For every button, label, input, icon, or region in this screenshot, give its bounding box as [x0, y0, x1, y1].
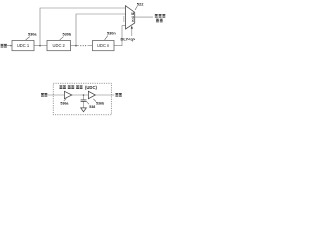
label 538 with tick	[87, 102, 90, 105]
svg-text:536a: 536a	[60, 102, 69, 106]
output label (Korean: 지연된 / 출력) right of mux	[155, 14, 165, 22]
inverter U536a	[64, 91, 71, 98]
label 522 with tick	[135, 6, 137, 10]
svg-text:UDC 2: UDC 2	[53, 43, 66, 48]
label 530b with tick	[60, 37, 64, 40]
wire UDC1 to UDC2	[34, 45, 47, 47]
mux vertical text MUX	[131, 12, 134, 23]
node A junction after UDC1	[39, 45, 41, 47]
wire inverter1 to inverter2	[71, 94, 88, 96]
wire UDC2 to ellipsis	[71, 45, 80, 47]
svg-text:538: 538	[89, 105, 95, 109]
wire select DLY into mux	[131, 27, 133, 36]
label 530n with tick	[105, 36, 108, 40]
label 530a with tick	[26, 37, 30, 40]
wire inverter2 to cell output	[95, 94, 114, 96]
node B junction after UDC2	[75, 45, 77, 47]
box UDC n	[93, 41, 115, 51]
wire UDCn output to mux input n	[114, 26, 126, 46]
svg-text:UDC n: UDC n	[97, 43, 110, 48]
title (Korean: 단위 지연 소자) + (UDC)	[60, 85, 83, 89]
wire ellipsis to UDCn	[88, 45, 93, 47]
ellipsis dots on chain between UDC2 and UDCn	[80, 45, 86, 46]
wire tap1 from node after UDC1 up to mux input 1	[40, 8, 126, 46]
svg-text:530n: 530n	[107, 32, 116, 36]
svg-text:(UDC): (UDC)	[85, 85, 97, 90]
cell input label (Korean: 입력)	[41, 93, 47, 97]
inverter U536b	[88, 91, 95, 98]
box UDC 1	[12, 41, 34, 51]
wire input to UDC 1	[7, 45, 12, 47]
dashed box unit delay cell detail	[53, 83, 111, 115]
ground	[81, 108, 87, 112]
mux U522 trapezoid	[126, 6, 135, 29]
label 536a with tick	[64, 99, 67, 101]
svg-text:530a: 530a	[28, 32, 37, 36]
svg-text:DLY<q>: DLY<q>	[121, 37, 136, 42]
svg-text:536b: 536b	[96, 102, 105, 106]
wire mux output	[135, 16, 153, 18]
select arrowhead into mux	[131, 26, 133, 29]
input arrowhead into UDC1	[10, 45, 12, 47]
svg-text:522: 522	[137, 1, 144, 6]
mux input ellipsis dots	[123, 17, 124, 22]
box UDC 2	[47, 41, 71, 51]
svg-text:530b: 530b	[63, 32, 72, 36]
label 536b with tick	[93, 99, 96, 102]
wire capacitor stub	[83, 95, 85, 100]
input label (Korean: 입력) left of UDC1	[1, 44, 7, 48]
wire tap2 from node after UDC2 up to mux input 2	[76, 14, 126, 46]
capacitor C538 plates	[81, 100, 87, 102]
cell output label (Korean: 출력)	[115, 93, 121, 97]
svg-text:UDC 1: UDC 1	[17, 43, 30, 48]
node C junction at capacitor tap	[83, 94, 85, 96]
wire UDC-cell input	[48, 94, 65, 96]
